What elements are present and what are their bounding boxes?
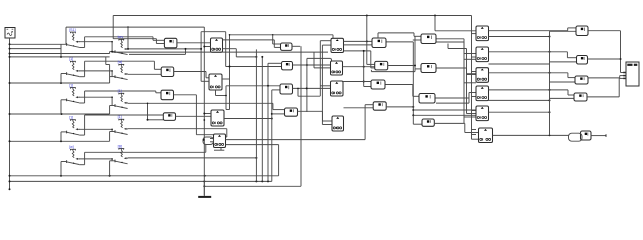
wire v366 (367, 16, 375, 65)
wire K5 elbow (110, 161, 116, 176)
wire U9 up (378, 33, 421, 38)
wire U12 in1 (365, 104, 373, 106)
wire FB1 out (344, 40, 373, 42)
full-adder FC6 (479, 128, 493, 143)
wire bottom 175.8 (9, 175, 279, 177)
wire S1 elbow (60, 44, 62, 57)
wire U10 out (371, 66, 415, 72)
ground (198, 181, 211, 197)
wire v262 (261, 56, 263, 181)
wire v466b (448, 44, 476, 114)
wire K1 lower out (129, 48, 187, 55)
wire K3 elbow (110, 106, 116, 115)
wire K2 out (128, 73, 162, 75)
gate U2 (161, 67, 174, 77)
wire K3 out (128, 103, 285, 121)
wire U6 in1 (268, 63, 282, 181)
svg-text:[B]: [B] (118, 144, 122, 148)
wire U17 in2 (550, 30, 577, 32)
wire v226 (225, 86, 227, 110)
wire rung 48.6 (9, 48, 62, 50)
gate U21 (581, 131, 592, 140)
wire FB4 out (344, 107, 374, 109)
wire rung 114 (9, 113, 110, 115)
node trunk-hairpin (203, 139, 205, 141)
wire bottom 186.3 (203, 185, 301, 187)
switch K5 (col2 row5) (115, 144, 128, 163)
gate U8 (285, 108, 298, 116)
wire v128 (127, 27, 129, 50)
wire ground bus (9, 38, 11, 189)
wire U20 in2 (550, 97, 575, 99)
wire FC3 out (489, 72, 576, 78)
wire U1 out (177, 42, 211, 44)
switch K4 (col2 row4) (115, 115, 128, 134)
wire U16 out (435, 123, 479, 139)
wire S5 elbow (61, 162, 67, 176)
wire S1 NC route (79, 37, 164, 48)
wire FA4 hairpin (203, 137, 214, 145)
wire S2 elbow (61, 74, 67, 84)
wire FC5 co (489, 111, 551, 113)
gate U4 (163, 113, 175, 121)
wire v256 upper (255, 49, 257, 57)
wire S1 throw to K1 (79, 41, 113, 52)
gate U9 (372, 38, 386, 48)
wire FA1 co (223, 49, 258, 58)
full-adder FC3 (476, 68, 489, 83)
wire FB1 co (344, 44, 373, 46)
wire U17 out (588, 31, 626, 73)
gate U1 (164, 38, 177, 48)
switch S5 (col1 row5) (67, 145, 80, 164)
wire FC6 out (493, 135, 569, 137)
wire v413 trunk (412, 42, 414, 124)
wire v415 (414, 36, 421, 69)
wire K4 elbow (110, 132, 116, 142)
wire K2 elbow (106, 57, 116, 83)
wire FA1 in2 (203, 46, 210, 48)
wire U14 out (436, 68, 476, 75)
wire U6 out (293, 64, 331, 66)
wire v314 (314, 52, 331, 68)
wire 31.7 link (201, 31, 226, 33)
gate U6 (282, 62, 293, 70)
gate U20 (574, 93, 587, 101)
wire FC4 out (489, 89, 575, 95)
wire U16 in (413, 123, 423, 125)
wire U7 in1 (225, 85, 280, 97)
full-adder FA4 (214, 134, 226, 148)
wire U18 out (588, 58, 621, 60)
wire v320 (320, 41, 331, 96)
switch S4 (col1 row4) (67, 116, 80, 135)
node bus-end (9, 188, 11, 190)
wire U4 out (176, 115, 212, 117)
wire S4 elbow (61, 132, 67, 141)
full-adder FC1 (476, 26, 489, 41)
power source B1 (5, 28, 15, 39)
wire trunkR (549, 31, 551, 135)
full-adder FB1 (331, 38, 344, 52)
wire v471 trunk (472, 16, 477, 135)
gate U12 (373, 102, 386, 110)
wire v271 trunk (271, 90, 285, 181)
wire K1 out (128, 48, 202, 50)
wire feed U6.in2 (226, 66, 282, 68)
wire v229 upper (230, 34, 334, 67)
wire U12 out2 (387, 106, 415, 108)
wire U7 out (293, 87, 331, 96)
svg-text:[1]: [1] (69, 57, 73, 61)
wire S5 NC route (79, 152, 206, 164)
wire U11 out (385, 85, 419, 97)
wire FA3 in1 (203, 113, 211, 121)
wire trunkB (307, 58, 332, 112)
svg-text:[S1]: [S1] (69, 28, 75, 32)
wire FC1 out (489, 28, 577, 31)
wire FC1 co (489, 36, 551, 38)
gate U17 (576, 26, 588, 36)
wire U19 out (588, 76, 626, 78)
wire FB2 out (343, 66, 375, 68)
wire FA4 out2 (214, 145, 279, 176)
gate U3 (161, 90, 174, 100)
wire FA2 in2 (201, 80, 209, 82)
wire v113 (113, 16, 164, 44)
wire rung 83 (9, 82, 110, 84)
full-adder FC4 (476, 86, 489, 101)
full-adder FB3 (331, 81, 344, 96)
wire U5 out (292, 45, 300, 47)
wire FC3 co (489, 63, 550, 65)
full-adder FC5 (476, 106, 489, 121)
wire FA2 co (216, 90, 227, 96)
full-adder FA2 (209, 74, 222, 90)
wire top 15.5 (113, 15, 471, 17)
switch K1 (col2 row1) (115, 35, 128, 54)
wire FA2 out (222, 78, 230, 80)
wire U20 out (587, 78, 626, 97)
wire v229 (226, 34, 231, 110)
wire U13 in (413, 39, 421, 41)
switch S2 (col1 row2) (67, 57, 80, 76)
gate U15 (419, 94, 435, 104)
gate U16 (422, 119, 434, 126)
wire FC5 feeds (413, 110, 475, 115)
gate U13 (421, 34, 436, 44)
svg-text:[1]: [1] (118, 115, 122, 119)
svg-text:[1]: [1] (69, 83, 73, 87)
wire v204 trunk (203, 27, 205, 195)
switch K3 (col2 row3) (115, 89, 128, 108)
wire rung 56.9 (9, 56, 110, 58)
full-adder FA1 (211, 38, 223, 52)
display DS1 (623, 62, 639, 86)
svg-text:[1]: [1] (69, 116, 73, 120)
wire FB1 co2 (344, 51, 375, 68)
full-adder FB2 (331, 61, 343, 75)
wire S4 NC route (79, 115, 163, 135)
wire S4 throw to K4 (79, 129, 113, 132)
wire v363 (363, 50, 371, 87)
gate U19 (575, 76, 588, 84)
wire K1 pivot stub (110, 51, 115, 53)
wire FA4 hairpin stubs (206, 139, 214, 153)
wire FC5 out (489, 99, 551, 101)
wire top 27 (66, 26, 204, 44)
wire v435 (435, 16, 476, 31)
wire trunkA (300, 46, 302, 186)
wire v464b (436, 42, 476, 123)
wire FA3 out (224, 118, 273, 120)
wire FB3 out (343, 81, 371, 83)
wire bottom 181.4 (9, 180, 272, 182)
wire U19 in2 (550, 81, 576, 83)
gate U18 (577, 56, 588, 65)
wire rung r1 pivot (9, 43, 67, 45)
wire FA4 out1 (226, 105, 366, 140)
wire U21 out (591, 134, 607, 137)
wire S5 throw to K5 (79, 158, 113, 161)
gate U10 (375, 61, 388, 70)
wire v256 low (255, 57, 257, 181)
wire U2 out (174, 72, 209, 78)
switch S1 (col1 row1) (67, 28, 80, 47)
wire U15 out (435, 93, 476, 104)
wire v225 trunk (225, 32, 227, 67)
wire K5 out (128, 157, 258, 159)
wire rung 141.3 (9, 140, 110, 142)
wire U8 out (298, 111, 333, 121)
switch S3 (col1 row3) (67, 83, 80, 102)
full-adder FA3 (211, 110, 224, 126)
wire U21 hairpin (569, 133, 583, 141)
gate U14 (421, 64, 436, 73)
switch K2 (col2 row2) (115, 60, 128, 79)
wire rung 53.5 (9, 52, 110, 55)
wire K4 out (128, 129, 227, 137)
gate U11 (371, 80, 385, 89)
gate U7 (280, 84, 293, 94)
wire U18 in2 (550, 61, 577, 63)
wire v201 trunk (200, 32, 202, 82)
gate U5 (281, 43, 293, 50)
wire S3 elbow (61, 100, 67, 114)
wire v322 (322, 45, 332, 124)
full-adder FC2 (476, 47, 489, 62)
wire U9 out (386, 41, 413, 43)
full-adder FB4 (332, 116, 344, 131)
svg-text:[1]: [1] (118, 89, 122, 93)
wire U13 out (436, 39, 476, 54)
wire FA1 out (223, 40, 281, 48)
wire S2 NC route (79, 61, 161, 76)
svg-text:[w]: [w] (69, 145, 74, 149)
wire S3 throw to K3 (79, 96, 113, 105)
svg-text:[w]: [w] (118, 60, 123, 64)
wire S2 throw to K2 (79, 70, 113, 77)
wire U3 out (174, 95, 214, 135)
wire S3 NC route (79, 91, 161, 103)
wire FC2 out (489, 51, 577, 58)
wire 52 long (111, 51, 328, 53)
